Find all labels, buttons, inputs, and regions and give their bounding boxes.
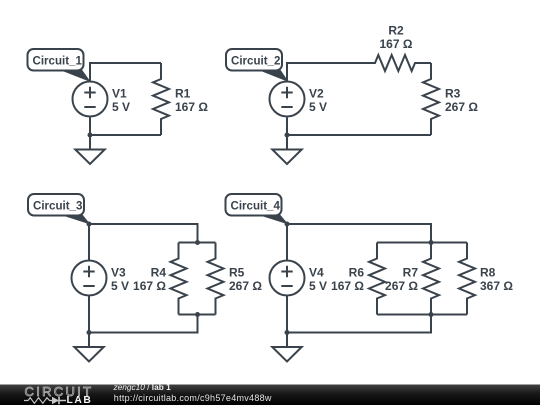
CircuitLab logo resistor-diode line xyxy=(24,398,52,404)
svg-text:267 Ω: 267 Ω xyxy=(385,279,418,293)
svg-text:5 V: 5 V xyxy=(111,279,129,293)
ground circuit 3 xyxy=(88,333,90,348)
junction dot top rail circuit 3 xyxy=(195,240,200,245)
svg-text:367 Ω: 367 Ω xyxy=(480,279,513,293)
node label Circuit_3 xyxy=(58,214,89,224)
wire: parallel bottom rail circuit 4 xyxy=(377,314,467,316)
resistor R7 xyxy=(423,243,439,315)
svg-text:267 Ω: 267 Ω xyxy=(229,279,262,293)
wire: V2 top to R2 left xyxy=(287,63,359,82)
wire: parallel top rail circuit 4 xyxy=(377,242,467,244)
junction dot bottom rail circuit 3 xyxy=(195,312,200,317)
svg-text:Circuit_3: Circuit_3 xyxy=(33,199,83,213)
wire: R1 bottom to V1 bottom xyxy=(90,118,161,136)
CircuitLab logo diode symbol xyxy=(52,397,59,405)
resistor R5 xyxy=(208,243,224,315)
wire: node to V3 and parallel pair top xyxy=(89,224,198,261)
voltage source V2 xyxy=(270,82,305,117)
wire: parallel bottom rail circuit 3 xyxy=(179,314,216,316)
svg-text:167 Ω: 167 Ω xyxy=(380,37,413,51)
junction dot ground circuit 3 xyxy=(87,330,92,335)
svg-text:V3: V3 xyxy=(111,265,126,279)
voltage source V4 xyxy=(270,261,305,296)
resistor R6 xyxy=(369,243,385,315)
svg-text:R2: R2 xyxy=(388,24,404,38)
resistor R3 xyxy=(423,63,439,135)
svg-text:5 V: 5 V xyxy=(112,100,130,114)
node dot circuit 4 top xyxy=(285,222,290,227)
wire: node to V4 and parallel trio top xyxy=(287,224,431,261)
svg-text:V4: V4 xyxy=(309,265,324,279)
voltage source V3 xyxy=(72,261,107,296)
node dot circuit 3 top xyxy=(87,222,92,227)
svg-text:167 Ω: 167 Ω xyxy=(331,279,364,293)
junction dot ground circuit 4 xyxy=(285,330,290,335)
resistor R1 xyxy=(153,63,169,135)
wire: R3 bottom to V2 bottom xyxy=(287,118,431,136)
wire: V1 top to R1 top xyxy=(90,63,161,82)
svg-text:R3: R3 xyxy=(445,86,461,100)
voltage source V1 xyxy=(73,82,108,117)
ground circuit 4 xyxy=(286,333,288,348)
junction dot top rail circuit 4 xyxy=(429,240,434,245)
resistor R2 xyxy=(359,55,431,71)
svg-text:Circuit_4: Circuit_4 xyxy=(231,199,281,213)
svg-text:Circuit_2: Circuit_2 xyxy=(231,54,281,68)
svg-text:R4: R4 xyxy=(151,265,167,279)
node label Circuit_1 xyxy=(58,69,90,82)
svg-text:167 Ω: 167 Ω xyxy=(133,279,166,293)
svg-text:Circuit_1: Circuit_1 xyxy=(33,54,83,68)
svg-text:http://circuitlab.com/c9h57e4m: http://circuitlab.com/c9h57e4mv488w xyxy=(114,393,272,403)
resistor R4 xyxy=(171,243,187,315)
resistor R8 xyxy=(459,243,475,315)
svg-text:167 Ω: 167 Ω xyxy=(175,100,208,114)
footer bar xyxy=(0,385,540,405)
svg-text:5 V: 5 V xyxy=(309,279,327,293)
svg-text:267 Ω: 267 Ω xyxy=(445,100,478,114)
ground circuit 2 xyxy=(286,135,288,150)
node label Circuit_2 xyxy=(256,69,288,82)
wire: bottom return circuit 4 xyxy=(287,296,431,333)
svg-text:V2: V2 xyxy=(309,86,324,100)
svg-text:R8: R8 xyxy=(480,265,496,279)
svg-text:V1: V1 xyxy=(112,86,127,100)
svg-text:zengc10 / lab 1: zengc10 / lab 1 xyxy=(113,382,172,392)
junction dot circuit 2 xyxy=(285,133,290,138)
svg-text:R7: R7 xyxy=(403,265,419,279)
junction dot bottom rail circuit 4 xyxy=(429,312,434,317)
svg-text:R5: R5 xyxy=(229,265,245,279)
junction dot circuit 1 xyxy=(88,133,93,138)
wire: bottom return circuit 3 xyxy=(89,296,198,333)
wire: parallel top rail circuit 3 xyxy=(179,242,216,244)
svg-text:R1: R1 xyxy=(175,86,191,100)
svg-text:LAB: LAB xyxy=(67,395,93,405)
svg-text:R6: R6 xyxy=(349,265,365,279)
ground circuit 1 xyxy=(89,135,91,150)
node label Circuit_4 xyxy=(256,214,288,224)
svg-text:5 V: 5 V xyxy=(309,100,327,114)
